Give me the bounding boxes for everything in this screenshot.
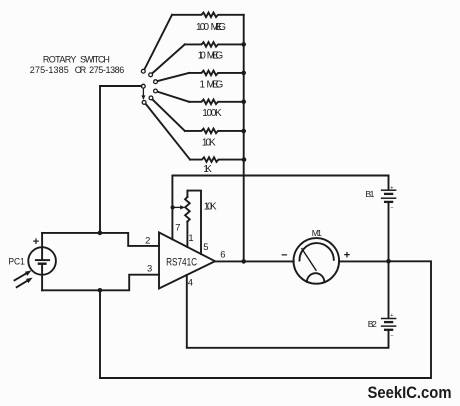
svg-text:1: 1: [200, 79, 206, 90]
svg-text:100: 100: [196, 22, 209, 33]
svg-text:−: −: [390, 333, 393, 339]
svg-text:+: +: [390, 185, 393, 191]
svg-text:100K: 100K: [202, 108, 222, 119]
svg-text:M1: M1: [312, 228, 322, 238]
svg-text:275-1386: 275-1386: [89, 65, 124, 75]
svg-text:3: 3: [147, 262, 152, 273]
svg-text:6: 6: [220, 249, 225, 260]
svg-text:10K: 10K: [204, 202, 217, 213]
svg-text:OR: OR: [75, 65, 87, 75]
svg-text:4: 4: [188, 276, 193, 287]
svg-text:−: −: [390, 205, 393, 211]
svg-text:+: +: [344, 250, 350, 262]
svg-text:2: 2: [145, 235, 150, 246]
svg-text:MEG: MEG: [207, 79, 224, 90]
svg-text:275-1385: 275-1385: [30, 65, 69, 75]
svg-text:7: 7: [175, 222, 180, 233]
svg-text:+: +: [33, 236, 39, 248]
svg-text:MEG: MEG: [211, 22, 227, 33]
svg-text:10K: 10K: [202, 137, 216, 148]
svg-text:MEG: MEG: [207, 50, 224, 61]
svg-text:B1: B1: [365, 189, 374, 199]
svg-text:1: 1: [188, 232, 193, 243]
svg-text:SWITCH: SWITCH: [80, 54, 110, 64]
svg-text:10: 10: [198, 50, 207, 61]
svg-text:1K: 1K: [203, 164, 212, 175]
svg-text:+: +: [390, 313, 393, 319]
svg-text:RS741C: RS741C: [166, 256, 197, 268]
svg-text:5: 5: [203, 241, 208, 252]
svg-text:PC1: PC1: [8, 256, 25, 267]
svg-text:−: −: [281, 250, 287, 262]
svg-text:ROTARY: ROTARY: [43, 54, 77, 64]
svg-text:SeekIC.com: SeekIC.com: [368, 384, 452, 402]
svg-text:B2: B2: [368, 319, 377, 329]
